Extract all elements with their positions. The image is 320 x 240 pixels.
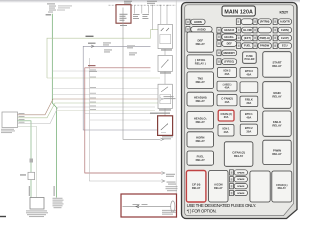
svg-text:AUD/TR: AUD/TR — [280, 20, 290, 24]
wire green main vertical — [52, 14, 56, 198]
svg-text:40A: 40A — [246, 116, 251, 120]
relay R3 — [158, 84, 172, 108]
svg-text:SPARE: SPARE — [237, 192, 245, 195]
fuse spare row1 — [253, 27, 271, 33]
relay C/F (H) highlighted — [186, 171, 206, 203]
svg-text:P/W(LH): P/W(LH) — [260, 36, 270, 40]
wire navy elbow — [83, 46, 157, 130]
svg-text:RELAY: RELAY — [278, 187, 287, 190]
svg-text:SPARE: SPARE — [237, 178, 245, 181]
svg-text:SPARE: SPARE — [237, 171, 245, 174]
relay F/BLK — [263, 111, 291, 136]
svg-text:30A: 30A — [246, 101, 251, 105]
relay START — [263, 52, 291, 77]
relay HEAD LO — [187, 112, 214, 129]
wire vertical x134.5 — [134, 5, 136, 13]
fuse BTN 3 40A — [240, 68, 258, 78]
label on green drop wire — [30, 159, 34, 163]
fuse IGN 1 40A — [218, 125, 234, 137]
fuse panel outer lid — [182, 3, 298, 219]
label cluster A0 — [103, 43, 112, 53]
fuse P/TRN — [253, 19, 271, 25]
svg-text:ECU: ECU — [282, 44, 288, 48]
svg-text:40A: 40A — [225, 86, 230, 90]
fuse F/BLK 30A — [240, 96, 258, 107]
svg-text:RELAY: RELAY — [234, 154, 243, 158]
relay FUEL — [187, 151, 214, 165]
svg-text:RELAY ): RELAY ) — [195, 62, 206, 66]
fuse AUD/TR — [273, 19, 292, 25]
relay TNS — [187, 72, 214, 89]
svg-text:HEAD-R: HEAD-R — [224, 28, 234, 32]
fuse AUDIO — [186, 27, 212, 32]
rotated wire label left — [29, 186, 30, 196]
svg-text:RELAY: RELAY — [272, 123, 281, 127]
fuse SPARE 2 — [230, 177, 248, 182]
svg-text:HORN: HORN — [194, 20, 202, 24]
ground component box bottom left — [30, 198, 44, 210]
motor symbol in bottom box — [171, 201, 175, 212]
fuse HORN — [186, 19, 205, 24]
svg-text:K52Y: K52Y — [280, 11, 289, 15]
svg-text:(F/FOG): (F/FOG) — [224, 60, 234, 64]
ground component caption — [26, 211, 48, 218]
svg-text:HEAD-L: HEAD-L — [224, 35, 234, 39]
fuse IGN 2 30A — [218, 68, 237, 78]
dashed bus top — [109, 4, 177, 6]
label RED — [88, 65, 96, 66]
label cluster A — [127, 46, 137, 56]
fuse A/CON highlight box — [116, 5, 131, 24]
node C101 label — [46, 14, 52, 15]
wire gray y94.3 — [52, 93, 157, 95]
connector arrow y46 — [91, 45, 94, 48]
wire green pin3 down — [18, 121, 32, 198]
relay DEF — [187, 32, 214, 52]
connector inside bottom box — [136, 205, 139, 208]
wire gray y88.6 — [52, 88, 158, 90]
wire gray y120 — [90, 119, 151, 121]
component M1 box — [2, 112, 18, 128]
wire vertical x140 — [141, 5, 143, 13]
fuse blank mid — [240, 82, 258, 93]
rotated wire label right — [54, 186, 55, 196]
fuse DxUP — [273, 35, 292, 41]
relay R1 caption — [161, 49, 172, 50]
svg-text:RELAY: RELAY — [196, 158, 205, 162]
wire brown pin1 — [18, 99, 164, 115]
fuse A/CON caption above — [124, 0, 132, 3]
fuse SPARE 3 — [230, 184, 248, 189]
svg-text:RELAY: RELAY — [196, 139, 205, 143]
bus node dots — [152, 5, 153, 6]
label WHT near connector — [88, 43, 96, 44]
fuse spare row0 — [236, 19, 253, 25]
fuse HEAD-R (col A) — [217, 27, 237, 33]
svg-text:SPARE: SPARE — [237, 185, 245, 188]
relay C/FAN (2) — [224, 142, 253, 167]
labels above bottom box — [166, 186, 178, 191]
relay R2 — [158, 55, 172, 71]
relay MAIN — [263, 82, 291, 109]
svg-text:PULLER: PULLER — [244, 58, 254, 61]
fuse P/WDW — [253, 43, 271, 49]
relay R4 caption above — [150, 113, 170, 114]
node label stack right — [53, 198, 64, 208]
wire gray pin5 — [18, 126, 37, 197]
fuse block header text — [47, 3, 72, 12]
svg-text:CxDN): CxDN) — [281, 28, 289, 32]
wire stub R3-R4 — [164, 109, 166, 116]
relay C/FAN (L) — [272, 171, 292, 202]
svg-text:DEF: DEF — [227, 42, 233, 46]
bus header text — [147, 0, 157, 3]
svg-text:ILLUMI: ILLUMI — [243, 28, 252, 32]
fuse MEMORY (col A) — [217, 50, 237, 56]
svg-text:RELAY: RELAY — [272, 152, 281, 156]
label GRN — [86, 36, 94, 37]
svg-text:USE THE DESIGNATED FUSES ONLY.: USE THE DESIGNATED FUSES ONLY. — [187, 203, 257, 208]
fuse puller — [243, 52, 257, 63]
svg-text:MAIN 120A: MAIN 120A — [224, 10, 253, 16]
svg-text:RELAY: RELAY — [272, 95, 281, 99]
wire vertical x167 — [166, 5, 168, 24]
wire gray y113.5 — [85, 113, 158, 115]
pin labels — [19, 113, 25, 123]
wire gray pin4 — [18, 107, 156, 124]
svg-text:(EXT): (EXT) — [244, 36, 251, 40]
fuse EXT — [237, 35, 254, 41]
wire gray y71 — [52, 70, 150, 72]
wire gray long — [89, 58, 161, 181]
fuse BTN 2 30A — [240, 124, 257, 135]
connector labels right side — [162, 96, 176, 184]
inline connector on left green line — [28, 172, 35, 179]
svg-text:AUDIO: AUDIO — [197, 27, 205, 31]
svg-text:RELAY: RELAY — [196, 99, 205, 103]
fuse (F/FOG) (col A) — [217, 59, 237, 65]
wire vertical x147.6 — [148, 5, 150, 13]
relay blank bottom — [250, 171, 270, 202]
svg-text:RELAY: RELAY — [192, 186, 201, 190]
svg-text:MEMORY: MEMORY — [223, 51, 235, 55]
svg-text:FUEL: FUEL — [244, 44, 251, 48]
fuse DEF (col A) — [217, 41, 237, 47]
wire GRN horizontal with elbow — [47, 30, 159, 78]
wire olive y110.6 — [57, 110, 156, 112]
wire olive y78 — [47, 77, 160, 79]
label cluster B — [133, 14, 149, 19]
relay HORN — [187, 132, 214, 147]
wire stub R1-R2 — [164, 49, 166, 56]
svg-text:40A: 40A — [246, 72, 251, 76]
relay A/CON — [209, 171, 228, 203]
inline connector label — [20, 174, 26, 175]
fuse FUEL — [237, 43, 254, 49]
wire vertical x152.6 — [152, 5, 154, 30]
relay F/FOG — [187, 55, 214, 69]
relay R1 — [158, 24, 172, 48]
wire labels column — [90, 70, 96, 110]
svg-text:*( ) FOR OPTION.: *( ) FOR OPTION. — [187, 208, 217, 213]
label MAIN 120A — [222, 6, 255, 16]
labels inside bottom box — [133, 204, 177, 214]
fuse ILLUMI — [237, 27, 254, 33]
bottom-left page dash — [0, 216, 6, 217]
fuse SPARE 1 — [230, 170, 248, 175]
wire red — [85, 68, 162, 173]
connector arrows — [160, 98, 163, 101]
svg-text:RELAY: RELAY — [196, 80, 205, 84]
fuse ECU — [273, 43, 292, 49]
wire green pin2 — [18, 103, 161, 118]
wire vertical x160.8 — [160, 5, 162, 24]
label under fuse box — [120, 25, 127, 26]
fuse ABS 40A — [217, 81, 237, 91]
svg-text:P/WDW: P/WDW — [260, 44, 270, 48]
fuse A/CON labels — [120, 14, 128, 21]
svg-text:(P/TRN): (P/TRN) — [260, 20, 270, 24]
wire stub R2-R3 — [164, 72, 166, 85]
label 18-BLU — [89, 71, 97, 72]
svg-text:RELAY: RELAY — [214, 186, 223, 190]
fuse SPARE 4 — [230, 190, 248, 195]
fuse DxDN — [273, 27, 292, 33]
fuse C-FAN 40A — [217, 95, 237, 106]
svg-text:CxUP): CxUP) — [281, 36, 289, 40]
relay R3 caption — [159, 109, 171, 110]
relay R4 highlight box — [158, 116, 173, 136]
condenser fan motor highlight box — [121, 194, 177, 217]
svg-text:40A: 40A — [225, 100, 230, 104]
relay R2 caption — [160, 72, 171, 73]
fuse C/FAN (2) 30A highlighted — [218, 110, 234, 121]
fuse panel inner face — [185, 5, 294, 216]
svg-text:RELAY: RELAY — [196, 42, 205, 46]
wire vertical from A/CON fuse — [123, 8, 161, 140]
relay HEAD HI — [187, 92, 214, 106]
fuse BTN 1 40A — [240, 110, 257, 122]
relay P/WIN — [263, 140, 291, 164]
svg-text:RELAY: RELAY — [196, 120, 205, 124]
component M1 caption — [1, 129, 15, 133]
fuse HEAD-L (col A) — [217, 34, 237, 40]
svg-text:RELAY: RELAY — [272, 64, 281, 68]
fuse P/W(LH) — [253, 35, 271, 41]
wire inside bottom box — [123, 206, 171, 208]
svg-text:30A: 30A — [225, 72, 230, 76]
svg-text:40A: 40A — [224, 130, 229, 134]
svg-text:30A: 30A — [246, 129, 251, 133]
sheet right edge — [175, 0, 177, 218]
svg-text:30A: 30A — [224, 116, 229, 119]
